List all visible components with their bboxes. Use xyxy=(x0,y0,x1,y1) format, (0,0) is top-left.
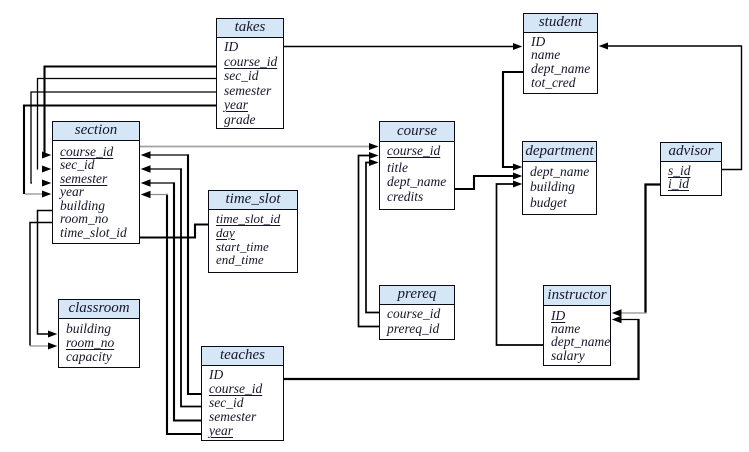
table course xyxy=(379,121,455,210)
wire teaches.course_id to section xyxy=(188,154,201,394)
table student xyxy=(523,13,598,94)
wire takes.semester to section.semester xyxy=(31,92,216,183)
table takes xyxy=(216,18,284,129)
table time_slot xyxy=(208,190,298,273)
wire section.course_id to course (gray) xyxy=(140,146,371,148)
arrowhead into course mid xyxy=(369,152,379,159)
arrowhead into instructor lower xyxy=(612,316,622,324)
wire prereq.prereq_id to course xyxy=(359,156,380,327)
table teaches xyxy=(201,346,284,441)
arrowhead into section left semester xyxy=(42,180,51,187)
wire prereq.course_id to course xyxy=(366,163,379,313)
wire advisor.i_id to instructor.ID xyxy=(646,185,661,314)
arrowhead into classroom building xyxy=(48,331,57,338)
arrowhead into section right year xyxy=(141,191,151,199)
table advisor xyxy=(660,142,722,196)
wire advisor.s_id to student.ID xyxy=(607,46,742,170)
wire student.dept_name to department xyxy=(503,72,523,167)
wire takes.year to section.year xyxy=(24,106,216,195)
wire section.time_slot_id to time_slot xyxy=(140,225,208,238)
arrowhead into section left sec_id xyxy=(42,166,51,173)
wire teaches.sec_id to section xyxy=(181,168,201,406)
table prereq xyxy=(379,285,455,340)
arrowhead into department dept_name top xyxy=(513,164,522,171)
wire teaches.semester to section xyxy=(174,182,201,420)
wire instructor.dept_name to department xyxy=(497,184,544,345)
arrowhead into section right semester xyxy=(141,179,151,187)
arrowhead into student right xyxy=(599,43,608,50)
wire course.dept_name to department xyxy=(455,176,513,189)
arrowhead into department dept_name mid xyxy=(513,173,522,180)
arrowhead into instructor upper xyxy=(612,309,622,317)
arrowhead into section left course_id xyxy=(42,152,51,159)
table instructor xyxy=(543,285,611,366)
arrowhead into section left year xyxy=(42,191,51,198)
arrowhead into student left xyxy=(513,43,522,50)
arrowhead into course course_id xyxy=(369,143,379,150)
arrowhead into section right course_id xyxy=(141,151,151,159)
wire takes.ID to student.ID xyxy=(284,46,514,48)
wire takes.sec_id to section.sec_id xyxy=(38,79,217,170)
table classroom xyxy=(58,299,140,368)
table department xyxy=(522,141,597,215)
wire teaches.ID to instructor.ID xyxy=(284,319,639,379)
arrowhead into course lower xyxy=(369,159,379,166)
arrowhead into department dept_name bottom xyxy=(513,181,522,188)
wire section.room_no to classroom xyxy=(30,223,52,346)
arrowhead into classroom room_no xyxy=(48,343,57,350)
wire section.building to classroom xyxy=(38,211,53,335)
wire teaches.year to section xyxy=(167,194,201,434)
table section xyxy=(52,121,140,244)
wire takes.course_id to section.course_id xyxy=(45,67,217,156)
arrowhead into section right sec_id xyxy=(141,165,151,173)
